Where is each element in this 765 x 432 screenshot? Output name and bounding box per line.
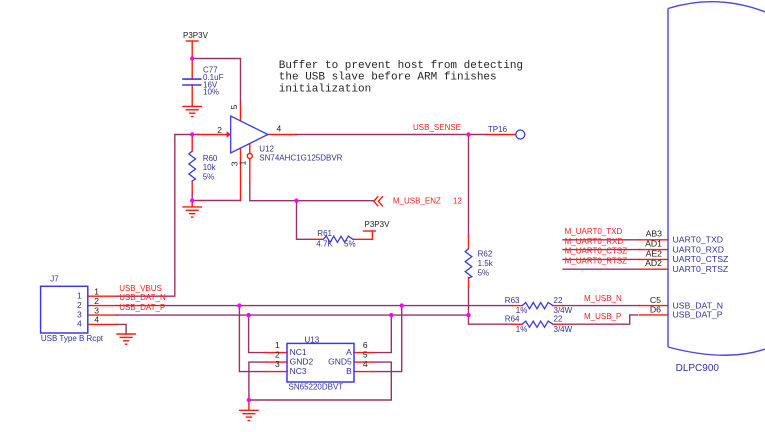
svg-text:2: 2 [94,296,99,306]
svg-text:USB Type B Rcpt: USB Type B Rcpt [41,334,104,343]
svg-text:M_UART0_CTSZ: M_UART0_CTSZ [565,247,628,256]
svg-text:GND2: GND2 [290,357,314,367]
svg-text:R63: R63 [505,296,520,305]
svg-text:U12: U12 [259,145,274,154]
svg-text:22: 22 [554,296,563,305]
svg-text:USB_DAT_P: USB_DAT_P [119,303,165,312]
svg-text:P3P3V: P3P3V [183,31,209,40]
svg-text:10k: 10k [203,163,217,172]
svg-text:5%: 5% [203,172,215,181]
svg-text:USB_SENSE: USB_SENSE [413,123,461,132]
svg-text:R64: R64 [505,315,520,324]
svg-text:SN74AHC1G125DBVR: SN74AHC1G125DBVR [259,153,342,162]
svg-text:AD2: AD2 [645,258,662,268]
svg-text:the USB slave before ARM finis: the USB slave before ARM finishes [279,72,497,84]
svg-text:U13: U13 [305,336,320,345]
svg-text:NC1: NC1 [290,347,307,357]
svg-text:4: 4 [363,359,368,369]
svg-text:AD1: AD1 [645,239,662,249]
svg-text:5%: 5% [478,269,490,278]
svg-text:4.7K: 4.7K [316,240,333,249]
svg-text:1.5k: 1.5k [478,259,494,268]
svg-text:A: A [346,347,352,357]
svg-text:UART0_TXD: UART0_TXD [673,235,724,245]
svg-text:USB_VBUS: USB_VBUS [119,284,162,293]
svg-text:1: 1 [275,340,280,350]
svg-text:M_USB_P: M_USB_P [584,312,621,321]
svg-text:USB_DAT_P: USB_DAT_P [673,310,723,320]
svg-text:Buffer to prevent host from de: Buffer to prevent host from detecting [279,60,523,72]
svg-text:UART0_CTSZ: UART0_CTSZ [673,254,730,264]
svg-text:initialization: initialization [279,83,371,95]
svg-text:2: 2 [275,350,280,360]
svg-text:B: B [346,366,352,376]
svg-text:R60: R60 [203,154,218,163]
svg-text:4: 4 [77,319,82,329]
svg-text:5%: 5% [344,240,356,249]
svg-text:M_UART0_RTSZ: M_UART0_RTSZ [565,257,628,266]
svg-text:M_USB_N: M_USB_N [584,294,622,303]
svg-text:22: 22 [554,315,563,324]
svg-text:AB3: AB3 [646,229,663,239]
svg-text:NC3: NC3 [290,366,307,376]
svg-text:R61: R61 [317,229,332,238]
svg-text:SN65220DBVT: SN65220DBVT [289,383,344,392]
svg-text:4: 4 [94,315,99,325]
svg-text:USB_DAT_N: USB_DAT_N [119,293,166,302]
svg-text:1%: 1% [516,325,528,334]
svg-text:GND5: GND5 [328,357,352,367]
svg-text:12: 12 [453,197,462,206]
svg-text:2: 2 [217,125,222,135]
svg-text:R62: R62 [478,250,493,259]
svg-text:DLPC900: DLPC900 [676,363,720,374]
svg-text:10%: 10% [203,88,219,97]
svg-text:M_UART0_TXD: M_UART0_TXD [565,227,623,236]
svg-text:UART0_RTSZ: UART0_RTSZ [673,264,729,274]
svg-text:3/4W: 3/4W [554,325,573,334]
svg-text:P3P3V: P3P3V [365,220,391,229]
svg-text:TP16: TP16 [488,125,508,134]
svg-text:J7: J7 [50,275,59,284]
svg-text:6: 6 [363,340,368,350]
svg-text:M_UART0_RXD: M_UART0_RXD [565,237,624,246]
svg-text:UART0_RXD: UART0_RXD [673,244,725,254]
svg-text:5: 5 [229,104,239,109]
svg-text:4: 4 [277,124,282,134]
svg-text:AE2: AE2 [646,248,663,258]
svg-text:1: 1 [238,160,248,165]
svg-text:3: 3 [275,359,280,369]
svg-text:D6: D6 [650,304,661,314]
svg-text:5: 5 [363,350,368,360]
svg-text:2: 2 [77,300,82,310]
svg-text:M_USB_ENZ: M_USB_ENZ [393,197,441,206]
